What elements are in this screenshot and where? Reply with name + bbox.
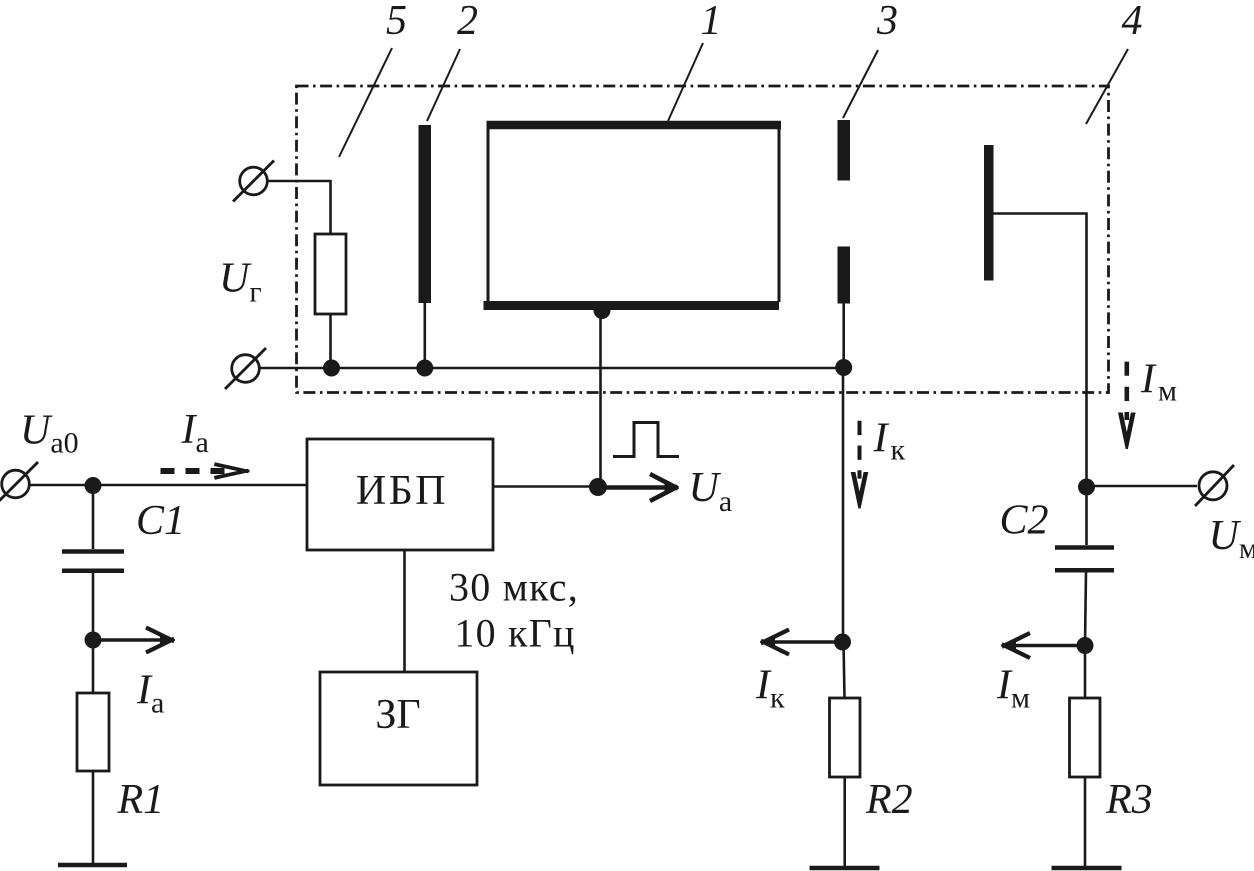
svg-text:30 мкс,: 30 мкс, xyxy=(449,565,579,610)
node bus right junction xyxy=(835,359,852,376)
svg-text:Uм: Uм xyxy=(1209,513,1254,565)
svg-text:Uа: Uа xyxy=(689,465,733,518)
resistor R3 xyxy=(1070,698,1101,777)
electrode 4 plate xyxy=(984,145,994,281)
leader line 2 xyxy=(427,49,460,121)
svg-text:10 кГц: 10 кГц xyxy=(454,611,575,656)
terminal T3 Ua0 xyxy=(2,470,30,498)
svg-text:Uа0: Uа0 xyxy=(20,408,79,460)
wire Ua0 node to C1 xyxy=(92,486,95,549)
capacitor C1 xyxy=(62,549,124,554)
resistor Rg xyxy=(315,234,346,314)
svg-text:ИБП: ИБП xyxy=(356,468,448,514)
dashed current arrow Im xyxy=(1125,362,1130,420)
svg-text:C2: C2 xyxy=(1000,498,1049,544)
block ZG xyxy=(320,672,477,785)
node bus grid junction xyxy=(416,360,433,377)
wire Um node to C2 xyxy=(1085,487,1088,545)
node Ua0 junction xyxy=(85,477,102,494)
node Im junction xyxy=(1077,637,1094,654)
solid current arrow Ik xyxy=(775,640,843,644)
wire cathode down to Ua node xyxy=(599,310,602,487)
svg-text:R2: R2 xyxy=(865,777,913,823)
wire Im node to R3 xyxy=(1084,646,1087,699)
svg-text:Iк: Iк xyxy=(873,416,906,467)
resistor R1 xyxy=(77,693,109,771)
dashed current arrow Ia xyxy=(161,468,229,474)
svg-text:Iа: Iа xyxy=(181,407,209,459)
wire R3 to ground xyxy=(1084,777,1087,868)
svg-text:Iм: Iм xyxy=(1140,356,1177,407)
block IBP xyxy=(307,439,493,550)
wire C1 to Ia node xyxy=(92,573,95,640)
ground left xyxy=(58,863,127,868)
terminal T1 xyxy=(240,167,268,195)
svg-text:Iк: Iк xyxy=(755,663,785,715)
wire collector down xyxy=(842,368,845,642)
anode box 1 top plate xyxy=(487,121,782,130)
svg-text:Iм: Iм xyxy=(996,663,1030,715)
wire IBP right to Ua node xyxy=(493,485,598,488)
wire T1 to resistor Rg xyxy=(268,181,331,234)
svg-text:Iа: Iа xyxy=(136,668,164,720)
resistor R2 xyxy=(830,698,861,777)
solid current arrow Ia xyxy=(93,638,160,642)
svg-text:5: 5 xyxy=(386,0,407,44)
wire bus xyxy=(260,367,844,370)
leader line 5 xyxy=(339,48,392,157)
node Ua junction xyxy=(589,478,607,496)
anode box 1 left wall xyxy=(487,128,490,302)
electrode 3 upper segment xyxy=(838,120,851,181)
svg-text:4: 4 xyxy=(1122,0,1143,44)
ground right xyxy=(1052,866,1122,871)
svg-text:R3: R3 xyxy=(1105,777,1153,823)
pulse symbol xyxy=(613,423,679,457)
ground middle xyxy=(810,866,880,871)
terminal T4 Um xyxy=(1199,472,1227,500)
wire Ik node to R2 xyxy=(844,642,845,698)
wire electrode 2 to bus xyxy=(423,303,426,368)
wire resistor Rg to bus xyxy=(329,314,332,368)
wire electrode 4 lead xyxy=(994,214,1087,488)
svg-text:ЗГ: ЗГ xyxy=(375,692,420,738)
svg-text:C1: C1 xyxy=(136,498,185,544)
anode box 1 bottom plate xyxy=(484,301,780,310)
node bus left junction xyxy=(323,360,340,377)
node cathode junction xyxy=(594,302,611,319)
svg-text:2: 2 xyxy=(457,0,478,44)
enclosure 5 dash-dot boundary xyxy=(297,86,1109,393)
svg-text:1: 1 xyxy=(701,0,722,44)
terminal T2 xyxy=(232,355,260,383)
wire R1 to ground xyxy=(92,771,95,864)
node Um junction xyxy=(1078,479,1095,496)
node Ik junction xyxy=(834,634,851,651)
wire Ua0 to IBP xyxy=(29,484,307,487)
wire C2 to Im node xyxy=(1085,572,1086,645)
dashed current arrow Ik xyxy=(858,421,862,479)
thick arrow Ua xyxy=(598,485,665,490)
electrode 3 lower segment xyxy=(838,247,851,304)
anode box 1 right wall xyxy=(778,128,781,302)
solid current arrow Im xyxy=(1016,644,1085,648)
leader line 3 xyxy=(843,50,878,118)
wire Ia node to R1 xyxy=(92,640,95,693)
capacitor C2 xyxy=(1055,545,1114,550)
svg-text:3: 3 xyxy=(876,0,898,44)
wire electrode 3 to bus xyxy=(842,304,845,369)
leader line 4 xyxy=(1086,49,1128,124)
wire R2 to ground xyxy=(843,777,846,868)
wire Um node to terminal xyxy=(1087,485,1198,488)
svg-text:R1: R1 xyxy=(117,777,165,823)
wire IBP to ZG xyxy=(403,550,406,672)
electrode 2 (control grid plate) xyxy=(419,125,432,303)
svg-text:Uг: Uг xyxy=(219,256,262,309)
node Ia junction xyxy=(85,632,102,649)
leader line 1 xyxy=(668,43,703,121)
